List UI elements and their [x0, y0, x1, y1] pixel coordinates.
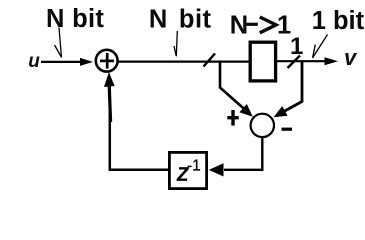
svg-text:N bit: N bit [46, 5, 104, 33]
svg-text:1 bit: 1 bit [312, 7, 365, 35]
svg-text:1: 1 [290, 33, 303, 60]
svg-text:u: u [28, 51, 40, 72]
svg-text:-1: -1 [187, 158, 201, 175]
svg-text:N bit: N bit [149, 6, 212, 34]
svg-text:N: N [230, 12, 248, 40]
svg-text:v: v [344, 45, 358, 70]
